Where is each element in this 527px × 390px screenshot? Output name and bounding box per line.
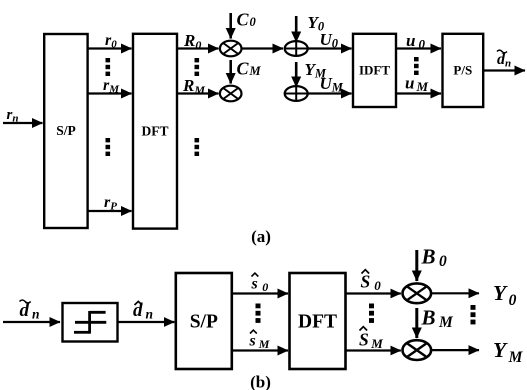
node u_0 label — [406, 31, 425, 52]
dots between u_0 and u_M — [414, 57, 419, 75]
node r_0 label — [105, 32, 117, 51]
wire slicer to S/P — [118, 321, 175, 323]
adder A1 — [285, 41, 308, 56]
wire A1 to IDFT — [308, 47, 352, 49]
node s^_M label — [249, 333, 270, 352]
svg-text:P/S: P/S — [453, 63, 472, 78]
svg-text:uM: uM — [405, 74, 428, 95]
svg-text:SM: SM — [359, 330, 383, 352]
node Y_0 out label — [493, 281, 517, 309]
wire output d~_n — [483, 69, 525, 71]
node U_M label — [320, 74, 344, 95]
wire r_M — [88, 92, 132, 94]
svg-text:CM: CM — [237, 59, 262, 79]
multiplier M4 — [403, 340, 432, 360]
wire A2 to IDFT — [308, 92, 352, 94]
svg-text:C0: C0 — [237, 10, 257, 30]
svg-text:S/P: S/P — [190, 312, 218, 333]
svg-text:B0: B0 — [421, 245, 448, 271]
node U_0 label — [320, 30, 339, 51]
wire M1 to A1 — [242, 47, 284, 49]
block S/P (b) — [176, 273, 232, 369]
wire r_0 — [88, 47, 132, 49]
svg-text:S/P: S/P — [56, 123, 76, 138]
svg-text:R0: R0 — [183, 31, 201, 52]
wire S^_M — [346, 349, 401, 351]
block P/S — [443, 34, 484, 107]
adder A2 — [285, 86, 308, 101]
wire C_M arrow — [229, 60, 232, 84]
dots right of DFT (a) — [195, 138, 200, 156]
wire Y_0 out — [431, 292, 479, 294]
multiplier M2 — [220, 86, 242, 102]
block S/P (a) — [44, 34, 87, 228]
node Y_0 label — [308, 13, 325, 34]
wire u_0 — [396, 47, 441, 49]
node u_M label — [405, 74, 428, 95]
wire C_0 arrow — [229, 13, 232, 39]
svg-text:rM: rM — [103, 77, 120, 96]
svg-text:rn: rn — [7, 107, 19, 125]
node S^_0 label — [361, 272, 382, 294]
multiplier M1 — [220, 41, 242, 57]
svg-text:UM: UM — [320, 74, 344, 95]
node d~_n label (b) — [20, 300, 40, 322]
node S^_M label — [359, 330, 383, 352]
wire S^_0 — [346, 292, 401, 294]
svg-text:rP: rP — [104, 194, 117, 213]
svg-text:BM: BM — [421, 306, 455, 332]
block IDFT — [353, 34, 396, 107]
wire s^_M — [232, 349, 288, 351]
caption (a) — [251, 227, 271, 246]
svg-text:U0: U0 — [320, 30, 339, 51]
svg-text:dn: dn — [497, 51, 511, 70]
node B_0 label — [421, 245, 448, 271]
block DFT (b) — [290, 273, 346, 369]
slicer symbol — [75, 321, 106, 324]
dots between Y_0 and Y_M — [471, 305, 476, 324]
node Y_M out label — [493, 338, 524, 366]
dots between S^_0 and S^_M — [369, 304, 374, 323]
node C_M label — [237, 59, 262, 79]
wire R_0 — [177, 47, 219, 49]
svg-text:DFT: DFT — [142, 124, 169, 139]
wire r_n input — [3, 122, 43, 124]
node B_M label — [421, 306, 455, 332]
svg-text:sM: sM — [249, 333, 270, 352]
svg-text:IDFT: IDFT — [359, 63, 390, 78]
svg-text:r0: r0 — [105, 32, 117, 51]
dots between s^_0 and s^_M — [256, 304, 261, 323]
node r_n label — [7, 107, 19, 125]
node r_M label — [103, 77, 120, 96]
svg-text:Y0: Y0 — [493, 281, 517, 309]
wire s^_0 — [232, 292, 288, 294]
block DFT (a) — [133, 34, 177, 229]
svg-text:RM: RM — [182, 76, 205, 97]
node d^_n label — [133, 300, 153, 322]
wire Y_0 arrow — [295, 16, 298, 42]
dots below r_M — [106, 138, 111, 156]
wire B_0 arrow — [415, 250, 418, 281]
svg-text:YM: YM — [493, 338, 524, 366]
svg-text:s0: s0 — [251, 276, 269, 295]
node R_0 label — [183, 31, 201, 52]
dots between R_0 and R_M — [195, 58, 200, 76]
svg-text:(a): (a) — [251, 227, 271, 246]
wire d~_n input (b) — [3, 321, 60, 323]
svg-text:DFT: DFT — [298, 312, 337, 333]
wire Y_M arrow — [295, 62, 298, 87]
svg-text:S0: S0 — [361, 272, 382, 294]
wire B_M arrow — [415, 308, 418, 338]
wire r_P — [88, 210, 132, 212]
wire Y_M out — [431, 349, 479, 351]
node s^_0 label — [251, 276, 269, 295]
caption (b) — [250, 373, 271, 390]
wire R_M — [177, 92, 219, 94]
svg-text:(b): (b) — [250, 373, 271, 390]
node R_M label — [182, 76, 205, 97]
node C_0 label — [237, 10, 257, 30]
wire u_M — [396, 92, 441, 94]
node d~_n label — [497, 51, 511, 70]
node Y_M label — [305, 60, 327, 81]
dots between r_0 and r_M — [106, 58, 111, 76]
multiplier M3 — [403, 283, 432, 303]
node r_P label — [104, 194, 117, 213]
slicer block — [63, 303, 118, 342]
